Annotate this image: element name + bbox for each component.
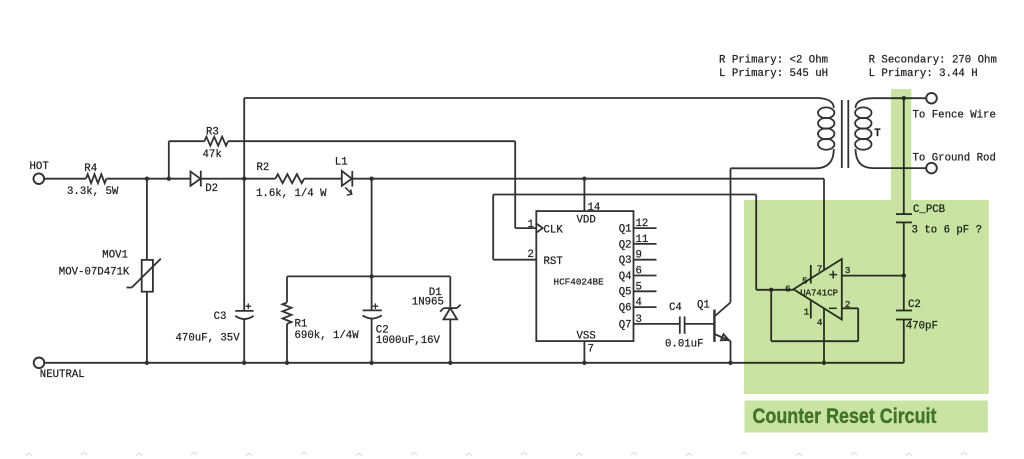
svg-text:R3: R3 xyxy=(206,126,219,138)
svg-text:MOV-07D471K: MOV-07D471K xyxy=(59,267,130,279)
svg-text:VDD: VDD xyxy=(577,214,596,226)
svg-text:L Primary: 3.44 H: L Primary: 3.44 H xyxy=(869,68,978,80)
svg-text:C4: C4 xyxy=(669,302,682,314)
svg-text:R1: R1 xyxy=(295,319,308,331)
svg-text:4: 4 xyxy=(636,297,642,309)
svg-text:To Fence Wire: To Fence Wire xyxy=(913,110,996,122)
svg-text:1000uF,16V: 1000uF,16V xyxy=(376,335,441,347)
svg-text:6: 6 xyxy=(636,266,642,278)
svg-text:R4: R4 xyxy=(84,163,97,175)
svg-text:R Primary: <2 Ohm: R Primary: <2 Ohm xyxy=(719,54,828,66)
svg-text:3: 3 xyxy=(636,314,642,326)
svg-text:12: 12 xyxy=(636,218,649,230)
svg-text:47k: 47k xyxy=(203,149,222,161)
svg-text:D2: D2 xyxy=(205,183,218,195)
svg-text:R Secondary: 270 Ohm: R Secondary: 270 Ohm xyxy=(869,54,997,66)
svg-text:Q5: Q5 xyxy=(619,287,632,299)
svg-text:VSS: VSS xyxy=(577,331,596,343)
svg-text:L Primary: 545 uH: L Primary: 545 uH xyxy=(719,68,828,80)
svg-text:9: 9 xyxy=(636,250,642,262)
svg-text:11: 11 xyxy=(636,234,649,246)
svg-text:HOT: HOT xyxy=(30,161,50,173)
svg-text:Q3: Q3 xyxy=(619,255,632,267)
svg-text:Q6: Q6 xyxy=(619,303,632,315)
svg-text:Q2: Q2 xyxy=(619,239,632,251)
svg-text:2: 2 xyxy=(528,249,534,261)
svg-text:1N965: 1N965 xyxy=(412,296,444,308)
svg-text:Counter Reset Circuit: Counter Reset Circuit xyxy=(753,404,937,428)
svg-text:7: 7 xyxy=(588,343,594,355)
svg-text:Q7: Q7 xyxy=(619,319,632,331)
svg-text:MOV1: MOV1 xyxy=(102,249,128,261)
svg-text:Q1: Q1 xyxy=(619,224,632,236)
svg-text:690k, 1/4W: 690k, 1/4W xyxy=(295,330,360,342)
svg-text:1: 1 xyxy=(528,219,534,231)
svg-text:C3: C3 xyxy=(214,311,227,323)
svg-text:CLK: CLK xyxy=(544,225,564,237)
svg-text:RST: RST xyxy=(544,256,564,268)
svg-text:470uF, 35V: 470uF, 35V xyxy=(176,332,241,344)
svg-text:L1: L1 xyxy=(335,157,348,169)
svg-text:NEUTRAL: NEUTRAL xyxy=(40,369,85,381)
svg-text:HCF4024BE: HCF4024BE xyxy=(554,277,605,288)
svg-text:Q4: Q4 xyxy=(619,271,632,283)
svg-text:0.01uF: 0.01uF xyxy=(665,338,703,350)
svg-text:R2: R2 xyxy=(257,162,270,174)
svg-text:14: 14 xyxy=(588,202,601,214)
svg-text:To Ground Rod: To Ground Rod xyxy=(913,152,996,164)
svg-text:3.3k, 5W: 3.3k, 5W xyxy=(67,186,119,198)
svg-text:Q1: Q1 xyxy=(697,300,710,312)
svg-text:1.6k, 1/4 W: 1.6k, 1/4 W xyxy=(256,188,327,200)
svg-text:5: 5 xyxy=(636,281,642,293)
svg-text:T: T xyxy=(874,128,881,140)
